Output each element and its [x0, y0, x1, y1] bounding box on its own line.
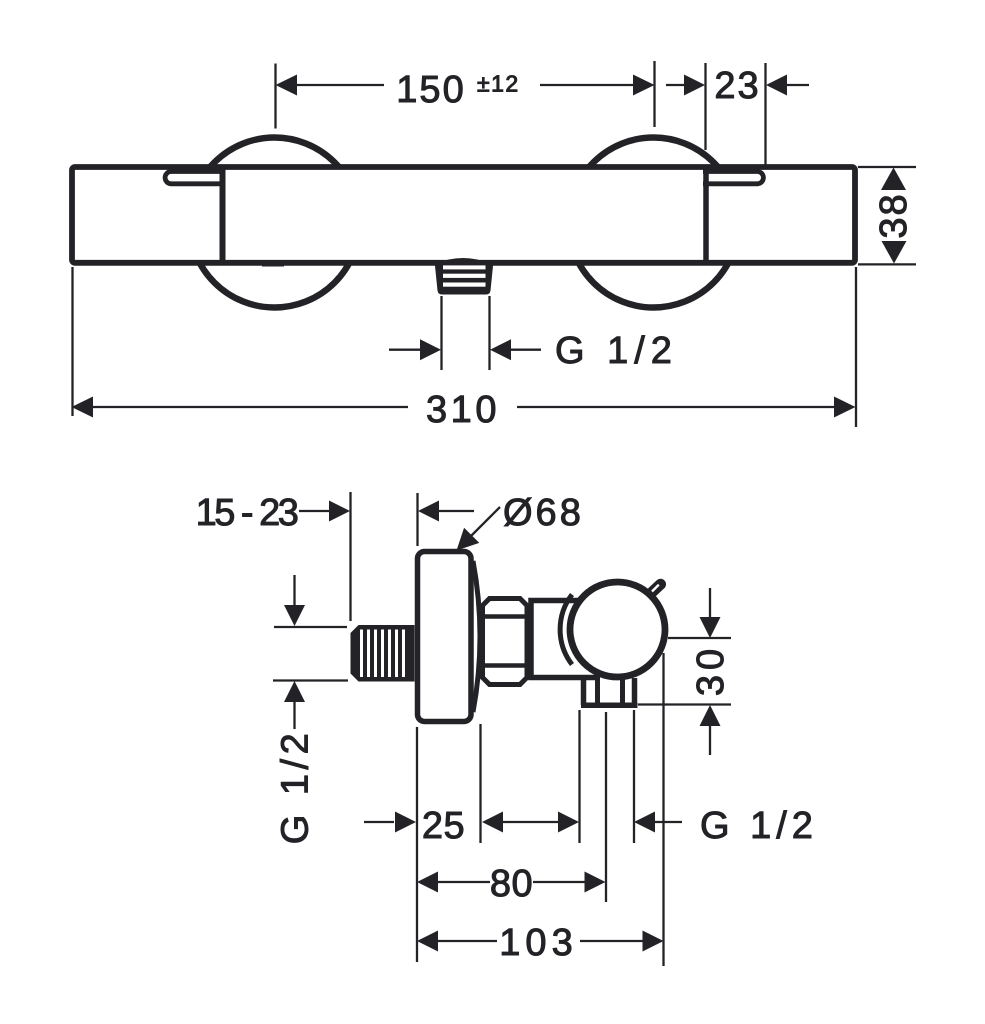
outlet G 1/2: left arrow [420, 339, 441, 360]
right escutcheon circle [569, 138, 739, 308]
threaded nipple [351, 625, 415, 682]
left inlet tick mark [262, 262, 284, 267]
outlet G 1/2: label text [700, 805, 818, 847]
dim 15-23: right extension line [416, 493, 418, 546]
dim G 1/2 left: label text (rotated) [275, 729, 317, 844]
dim 310: left arrow [72, 397, 94, 418]
dim 150: right extension line [653, 61, 655, 127]
svg-text:G 1/2: G 1/2 [700, 805, 818, 847]
dim 103: right line segment [580, 940, 643, 942]
dim 30: up arrow [700, 705, 721, 726]
hex nut facet line bottom [483, 663, 528, 667]
outlet G 1/2: left extension line [440, 296, 442, 370]
outlet G 1/2: left tail line [389, 349, 421, 351]
dim G 1/2 left: bottom extension line [273, 679, 348, 681]
dim 15-23: right tail line [438, 510, 474, 512]
svg-text:30: 30 [690, 644, 732, 696]
svg-text:G 1/2: G 1/2 [275, 729, 317, 844]
dim 25: left arrow [395, 812, 416, 833]
threaded outlet block [435, 261, 494, 295]
dim 103: value text [499, 922, 577, 964]
dim G 1/2 left: upper line [293, 575, 295, 605]
dim 80: value text [490, 863, 533, 905]
dim 25: right arrow [482, 812, 503, 833]
dim 150: left extension line [274, 64, 276, 129]
nipple thread stripes [362, 630, 404, 678]
shared left extension line (25/80/103) [416, 727, 418, 962]
dia 68: leader line [468, 507, 500, 539]
right module slot [703, 172, 763, 184]
hose outlet (side view) [581, 676, 638, 705]
dim 25: left tail line [364, 821, 394, 823]
left module division line [220, 167, 226, 263]
knob skirt arc [560, 595, 572, 665]
safety tab slit [652, 585, 659, 592]
knob right extension line [662, 653, 664, 966]
outlet bump arc [436, 258, 490, 264]
outlet left extension line [578, 710, 580, 843]
dim 23: value text [714, 65, 760, 107]
dim 15-23: right-pointing arrow [329, 501, 350, 522]
outlet G 1/2: left arrow [558, 812, 579, 833]
dim 310: right line segment [517, 406, 836, 408]
union hex nut [483, 599, 528, 685]
left escutcheon circle [190, 138, 360, 308]
outlet G 1/2: label text [555, 330, 678, 372]
outlet G 1/2: right extension line [488, 296, 490, 370]
dim 310: right extension line [855, 267, 857, 427]
dia 68: leader arrowhead [457, 528, 480, 551]
dim G 1/2 left: top extension line [274, 626, 347, 628]
svg-text:150: 150 [396, 69, 465, 111]
dim 150: left line segment [295, 84, 384, 86]
dim 30: value text (rotated) [690, 644, 732, 696]
outlet G 1/2: right tail line [510, 349, 541, 351]
dim 30: lower line [709, 725, 711, 755]
dim 23: left tail line [666, 84, 685, 86]
dim 80: right line segment [533, 881, 585, 883]
right inlet tick mark [641, 261, 663, 266]
outlet G 1/2: right tail line [654, 821, 682, 823]
dim 30: top extension line [668, 637, 731, 639]
dim 150: value text [396, 69, 465, 111]
outlet thread stripe 2 [443, 274, 486, 278]
temperature knob circle [570, 582, 665, 677]
outlet right extension line [633, 710, 635, 843]
escutcheon dome bulge [473, 561, 480, 712]
dim 30: bottom extension line [638, 703, 731, 705]
dim 310: right arrow [834, 397, 856, 418]
dim 150: left arrow [276, 75, 298, 96]
dim 23: right tail line [787, 84, 809, 86]
dim 150: right arrow [633, 75, 655, 96]
dim 23: right arrow [766, 75, 787, 96]
svg-text:23: 23 [714, 65, 760, 107]
dim 15-23: left extension line [349, 492, 351, 621]
valve body [531, 601, 600, 678]
dim 310: left line segment [91, 406, 408, 408]
escutcheon flange (side view) [418, 552, 472, 722]
dim 80: right arrow [585, 872, 606, 893]
dim 25: value text [422, 805, 465, 847]
dim G 1/2 left: lower line [293, 701, 295, 729]
dim 15-23: line to arrow [299, 510, 332, 512]
dim 80: left line segment [437, 881, 490, 883]
hex nut facet line top [483, 614, 528, 618]
svg-text:103: 103 [499, 922, 577, 964]
dim 23: left arrow [684, 75, 705, 96]
svg-text:80: 80 [490, 863, 533, 905]
dim 103: left arrow [417, 931, 438, 952]
right module division line [703, 167, 709, 263]
dim 15-23: left-pointing arrow [418, 501, 439, 522]
dim 30: upper line [709, 588, 711, 618]
dim 23: left extension line [704, 63, 706, 150]
dim 310: value text [426, 389, 500, 431]
dim 150: right line segment [540, 84, 635, 86]
svg-text:310: 310 [426, 389, 500, 431]
left module slot [165, 172, 225, 184]
dia 68: label text [503, 492, 584, 534]
dim 38: bottom extension line [858, 263, 916, 265]
outlet thread stripe 3 [443, 283, 486, 287]
dim 25 / G1/2: shared tail line [502, 821, 558, 823]
svg-text:25: 25 [422, 805, 465, 847]
dim 30: down arrow [700, 617, 721, 638]
dim 38: top extension line [858, 166, 916, 168]
dim G 1/2 left: down arrow [284, 605, 305, 626]
dim 15-23: value text [196, 492, 298, 534]
mixer body rectangle [72, 167, 855, 263]
dim 38: value text (rotated) [873, 192, 915, 238]
svg-text:Ø68: Ø68 [503, 492, 584, 534]
svg-text:38: 38 [873, 192, 915, 238]
svg-text:±12: ±12 [477, 71, 520, 97]
svg-text:G 1/2: G 1/2 [555, 330, 678, 372]
dim 150: tolerance text [477, 71, 520, 97]
flange face extension line [479, 724, 481, 843]
outlet centre extension line [605, 712, 607, 902]
outlet G 1/2: right arrow [490, 339, 511, 360]
dim 103: right arrow [643, 931, 664, 952]
outlet thread stripe 1 [443, 265, 486, 269]
dim 310: left extension line [71, 267, 73, 416]
dim G 1/2 left: up arrow [284, 681, 305, 702]
outlet G 1/2: right arrow [634, 812, 655, 833]
svg-text:15 - 23: 15 - 23 [196, 492, 298, 534]
temperature knob safety tab [645, 576, 669, 599]
dim 23: right extension line [764, 63, 766, 166]
dim 38: bottom arrow [882, 241, 907, 264]
dim 103: left line segment [437, 940, 497, 942]
dim 80: left arrow [417, 872, 438, 893]
dim 38: top arrow [881, 168, 906, 191]
